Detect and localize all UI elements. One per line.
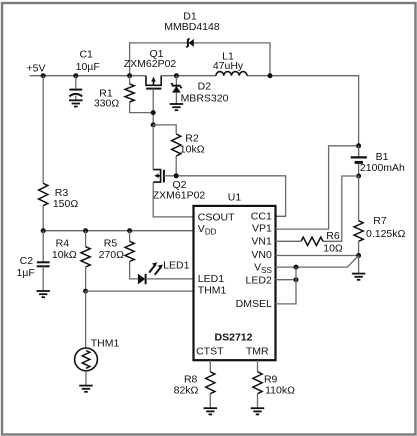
resistor R5 (125, 231, 138, 279)
label R7 0.125kohm (366, 215, 406, 240)
junction L1/D1 output node (268, 73, 273, 78)
svg-text:TMR: TMR (246, 345, 269, 357)
wire R1 top stub (129, 76, 131, 84)
svg-text:270Ω: 270Ω (99, 249, 125, 261)
ground R8 (204, 408, 218, 414)
svg-text:C1: C1 (79, 49, 93, 61)
label D2 MBRS320 (181, 81, 229, 105)
svg-text:U1: U1 (228, 192, 242, 204)
svg-text:ZXM62P02: ZXM62P02 (124, 58, 177, 70)
svg-text:+5V: +5V (27, 63, 46, 75)
junction gate/R2 branch (151, 122, 156, 127)
wire DMSEL tie (276, 267, 297, 304)
label U1 (228, 192, 242, 204)
wire VN1 to R6 (276, 240, 302, 242)
svg-text:VP1: VP1 (252, 222, 272, 234)
wire VN0 row (276, 255, 359, 257)
junction rail/D2 (174, 73, 179, 78)
pin CC1 (251, 211, 272, 223)
resistor R9 (253, 372, 262, 408)
label L1 47uHy (213, 51, 244, 73)
pin CTST (196, 345, 224, 357)
wire THM1 row (86, 290, 194, 292)
ground D2 (170, 104, 184, 110)
svg-text:THM1: THM1 (198, 285, 227, 297)
node +5V (27, 63, 46, 75)
pin VP1 (252, 222, 272, 234)
svg-text:CSOUT: CSOUT (198, 211, 235, 223)
svg-text:C2: C2 (20, 255, 34, 267)
resistor R6 (301, 237, 323, 245)
pin VDD (198, 223, 217, 237)
svg-text:110kΩ: 110kΩ (265, 384, 295, 396)
svg-text:82kΩ: 82kΩ (174, 384, 199, 396)
wire R3 top (42, 76, 44, 184)
svg-text:47uHy: 47uHy (213, 60, 244, 72)
svg-text:330Ω: 330Ω (94, 98, 120, 110)
svg-text:CTST: CTST (196, 345, 224, 357)
inductor L1 (216, 72, 247, 76)
junction R2/gate wire (174, 173, 179, 178)
wire C2 top (42, 231, 44, 262)
junction rail/R3 (41, 73, 46, 78)
junction rail/C1 (73, 73, 78, 78)
capacitor C2 (37, 262, 50, 291)
junction LED2 tie (294, 277, 299, 282)
ground R9 (251, 408, 265, 414)
ground THM1 (79, 386, 93, 392)
wire Q2 gate to CC1 (164, 176, 286, 217)
transistor Q2 (153, 170, 164, 183)
svg-text:150Ω: 150Ω (53, 198, 79, 210)
transistor Q1 (146, 76, 161, 89)
wire L1 to right corner (247, 76, 359, 157)
label R2 10kohm (180, 133, 205, 156)
resistor R7 (354, 176, 363, 256)
wire D1 top loop (130, 43, 270, 76)
wire LED2 row (276, 279, 297, 281)
label R9 110kohm (264, 374, 295, 397)
pin VN0 (251, 249, 272, 261)
label DS2712 (215, 332, 253, 344)
junction rail/R1/D1 (127, 73, 132, 78)
junction VN0/R7/gnd (356, 253, 361, 258)
resistor R1 (125, 84, 134, 102)
wire THM1 drop (85, 291, 87, 348)
label B1 2100mAh (360, 151, 405, 174)
label C1 10uF (76, 49, 100, 73)
wire R2 bottom (175, 156, 177, 176)
svg-text:MBRS320: MBRS320 (181, 93, 229, 105)
resistor R3 (39, 183, 48, 205)
svg-text:10Ω: 10Ω (323, 243, 343, 255)
svg-text:VN1: VN1 (251, 236, 272, 248)
svg-text:10µF: 10µF (76, 61, 100, 73)
wire R7 ground stem (358, 256, 360, 274)
wire R3 bottom (42, 206, 44, 231)
pin THM1 (198, 285, 227, 297)
ground R7 (352, 274, 366, 280)
svg-text:10kΩ: 10kΩ (52, 249, 77, 261)
diode D2 (171, 76, 182, 104)
svg-text:VN0: VN0 (251, 249, 272, 261)
diode D1 (186, 39, 194, 47)
capacitor C1 (69, 76, 82, 101)
junction gate/R1 (151, 110, 156, 115)
wire +5V rail (30, 75, 147, 77)
wire VDD row (43, 230, 193, 232)
wire VP1 route (276, 146, 359, 229)
led LED1 (138, 262, 163, 284)
label C2 1uF (17, 255, 35, 279)
resistor R4 (81, 231, 90, 291)
svg-text:LED1: LED1 (163, 260, 189, 272)
IC U1 DS2712 (194, 206, 276, 360)
junction VDD/R4 (83, 228, 88, 233)
wire rail Q1 to L1 (161, 75, 216, 77)
wire Q1 gate (152, 89, 154, 125)
label D1 MMBD4148 (164, 11, 220, 34)
junction VSS tie (294, 265, 299, 270)
wire VSS row (276, 256, 359, 268)
label R8 82kohm (174, 374, 199, 397)
svg-text:LED2: LED2 (246, 274, 272, 286)
label LED1 (163, 260, 189, 272)
svg-text:DMSEL: DMSEL (236, 298, 272, 310)
junction R4/THM1 row (83, 289, 88, 294)
svg-text:10kΩ: 10kΩ (180, 144, 205, 156)
svg-text:R7: R7 (373, 215, 387, 227)
svg-text:R5: R5 (104, 237, 118, 249)
wire Q2 drain (152, 125, 154, 170)
svg-text:1µF: 1µF (17, 267, 35, 279)
label R1 330ohm (94, 88, 120, 110)
label R4 10kohm (52, 237, 77, 260)
svg-text:THM1: THM1 (91, 337, 120, 349)
svg-text:DS2712: DS2712 (215, 332, 253, 344)
wire LED1 to pin (146, 278, 194, 280)
wire R1 bottom elbow (130, 102, 154, 113)
svg-text:ZXM61P02: ZXM61P02 (153, 189, 206, 201)
label THM1 (91, 337, 120, 349)
svg-text:MMBD4148: MMBD4148 (164, 21, 220, 33)
pin VSS (254, 262, 272, 276)
svg-text:LED1: LED1 (198, 273, 224, 285)
svg-text:D2: D2 (198, 81, 212, 93)
wire B1- to R6 (323, 176, 359, 241)
battery B1 (351, 146, 367, 176)
svg-text:2100mAh: 2100mAh (360, 162, 405, 174)
svg-text:CC1: CC1 (251, 211, 272, 223)
svg-text:R6: R6 (326, 230, 340, 242)
junction B1 minus (356, 174, 361, 179)
pin DMSEL (236, 298, 272, 310)
pin TMR (246, 345, 269, 357)
pin LED2 (246, 274, 272, 286)
junction VDD/R3/C2 (41, 228, 46, 233)
label Q2 ZXM61P02 (153, 179, 206, 201)
junction VP1/battery (356, 143, 361, 148)
svg-text:R4: R4 (56, 237, 70, 249)
pin VN1 (251, 236, 272, 248)
resistor R8 (206, 372, 215, 408)
wire TMR (257, 360, 259, 372)
svg-text:0.125kΩ: 0.125kΩ (366, 228, 406, 240)
wire R2 top branch (153, 125, 176, 134)
junction VDD/R5 (127, 228, 132, 233)
ground C2 (36, 291, 50, 297)
wire Q2 source to CSOUT (153, 182, 193, 217)
ground C1 (69, 100, 83, 106)
label R6 10ohm (323, 230, 343, 255)
wire CTST (209, 360, 211, 372)
thermistor THM1 (75, 348, 98, 386)
pin CSOUT (198, 211, 235, 223)
label R5 270ohm (99, 237, 125, 260)
pin LED1 (198, 273, 224, 285)
label R3 150ohm (53, 187, 79, 210)
label Q1 ZXM62P02 (124, 48, 177, 70)
resistor R2 (172, 134, 181, 156)
